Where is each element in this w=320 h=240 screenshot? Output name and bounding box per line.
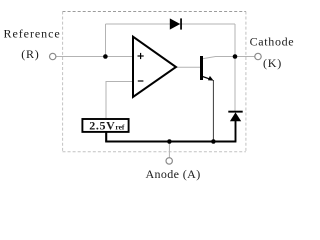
wire op-amp output to transistor base [176, 66, 200, 68]
transistor Q1 base bar [200, 56, 203, 80]
svg-text:(K): (K) [263, 56, 282, 70]
svg-text:Reference: Reference [4, 27, 61, 41]
op-amp U1 error amplifier [133, 37, 176, 97]
diode D1 (top) [170, 18, 182, 29]
wire anode node down to anode terminal [168, 142, 170, 158]
svg-text:Anode (A): Anode (A) [146, 167, 201, 181]
dashed device boundary box: top edge [63, 11, 247, 13]
ground rail (anode bus) [105, 141, 236, 143]
transistor Q1 emitter with arrow [203, 76, 214, 81]
terminal R (reference pin) [50, 53, 56, 59]
wire op-amp - input to 2.5V reference [106, 82, 133, 119]
terminal A (anode pin) [166, 158, 172, 164]
wire 2.5V reference output to rail [105, 133, 107, 142]
wire top rail through diode D1 [106, 23, 236, 25]
dashed device boundary box: left edge [62, 12, 64, 152]
op-amp - input label [138, 80, 144, 82]
node: emitter junction [211, 139, 216, 144]
terminal K (cathode pin) [255, 53, 261, 59]
wire vertical from reference node up to top rail [105, 24, 107, 57]
svg-text:Cathode: Cathode [250, 35, 295, 49]
node: reference junction [103, 54, 108, 59]
diode D2 (protection, anode to cathode) [228, 111, 242, 142]
op-amp + input label [138, 53, 144, 59]
dashed device boundary box: bottom edge [63, 151, 246, 153]
svg-text:(R): (R) [21, 47, 39, 61]
dashed device boundary box: right edge [245, 12, 247, 152]
wire right vertical from top rail down to cathode node and diode D2 [234, 24, 236, 111]
wire collector to cathode node [203, 57, 255, 59]
2.5V reference source box [82, 119, 128, 132]
wire reference input to op-amp + input [56, 56, 133, 58]
wire emitter down to ground rail [212, 80, 214, 141]
node: cathode junction [233, 54, 238, 59]
node: anode junction [167, 139, 172, 144]
